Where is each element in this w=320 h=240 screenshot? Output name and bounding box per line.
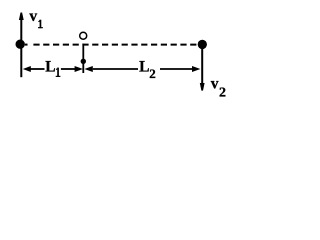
svg-text:v: v bbox=[211, 76, 219, 93]
svg-text:L: L bbox=[45, 58, 55, 75]
svg-text:L: L bbox=[139, 58, 149, 75]
svg-text:2: 2 bbox=[219, 85, 226, 100]
svg-text:2: 2 bbox=[149, 66, 156, 81]
svg-text:v: v bbox=[29, 8, 37, 25]
